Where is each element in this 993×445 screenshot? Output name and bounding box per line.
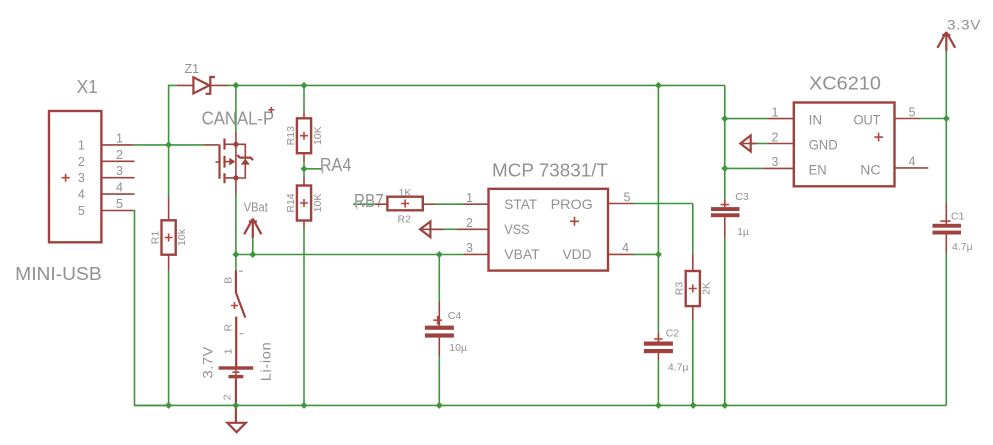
node ground rail at battery <box>232 402 239 409</box>
svg-text:NC: NC <box>860 161 880 177</box>
svg-text:VBAT: VBAT <box>504 246 540 262</box>
svg-text:R: R <box>222 323 234 331</box>
wire 3.3V column <box>945 51 947 119</box>
resistor R13 <box>297 111 311 162</box>
node EN junction <box>721 165 728 172</box>
capacitor C1 <box>933 203 962 253</box>
node ground rail at C4 <box>436 402 443 409</box>
svg-text:2: 2 <box>772 130 779 144</box>
svg-text:4: 4 <box>116 181 123 195</box>
wire C2 to ground rail <box>657 360 659 405</box>
svg-text:4.7µ: 4.7µ <box>952 241 973 253</box>
wire R13 top <box>303 85 305 111</box>
node ground rail at R14 <box>301 402 308 409</box>
capacitor C4 <box>425 302 454 356</box>
svg-text:XC6210: XC6210 <box>809 74 881 94</box>
svg-text:2: 2 <box>466 216 473 230</box>
ground symbol <box>227 405 245 432</box>
wire bottom ground rail <box>135 404 947 406</box>
wire R2 to MCP pin1 <box>436 203 464 205</box>
wire VDD column <box>657 85 659 333</box>
svg-text:1K: 1K <box>399 187 412 199</box>
svg-text:C2: C2 <box>666 328 680 340</box>
svg-text:4: 4 <box>909 155 916 169</box>
wire OUT net <box>920 118 946 120</box>
svg-text:2K: 2K <box>701 282 713 295</box>
svg-text:OUT: OUT <box>854 111 881 127</box>
svg-text:B: B <box>222 277 234 284</box>
node OUT junction <box>943 115 950 122</box>
RA4 origin tick <box>322 165 324 174</box>
svg-text:2: 2 <box>221 394 233 400</box>
svg-text:2: 2 <box>116 148 123 162</box>
wire X1 pin1 to node <box>133 144 204 146</box>
svg-text:1µ: 1µ <box>737 226 749 238</box>
svg-text:4.7µ: 4.7µ <box>668 362 689 374</box>
node ground rail at R1 <box>165 402 172 409</box>
wire FET drain to top rail <box>235 85 237 132</box>
svg-text:VDD: VDD <box>563 246 592 262</box>
svg-text:2: 2 <box>78 155 85 169</box>
svg-text:10K: 10K <box>312 194 324 213</box>
svg-text:PROG: PROG <box>551 196 593 212</box>
svg-text:1: 1 <box>116 131 123 145</box>
resistor R3 <box>686 254 700 320</box>
zener diode Z1 <box>177 77 228 94</box>
svg-text:R1: R1 <box>149 231 161 245</box>
svg-text:10K: 10K <box>312 126 324 145</box>
capacitor C2 <box>644 333 673 360</box>
svg-text:1: 1 <box>772 105 779 119</box>
ground arrow MCP VSS <box>420 222 444 238</box>
svg-text:1: 1 <box>466 191 473 205</box>
node VBUS junction <box>165 141 172 148</box>
IC U1 MCP 73831/T <box>456 189 633 271</box>
svg-text:STAT: STAT <box>504 196 537 212</box>
switch S1 <box>231 255 245 367</box>
svg-text:C3: C3 <box>735 191 749 203</box>
svg-text:MCP 73831/T: MCP 73831/T <box>492 161 608 181</box>
wire VBUS up to top rail <box>169 85 177 144</box>
svg-text:R14: R14 <box>285 193 297 212</box>
svg-text:5: 5 <box>624 190 631 204</box>
node top rail at VDD column <box>655 82 662 89</box>
node ground rail at C3 <box>721 402 728 409</box>
wire FET source down to mid rail <box>235 194 237 255</box>
wire GND pin <box>756 143 766 145</box>
node mid rail at C4 <box>436 251 443 258</box>
svg-text:GND: GND <box>809 137 838 153</box>
wire OUT down to C1 <box>945 119 947 204</box>
wire R3 to ground rail <box>692 320 694 405</box>
wire C4 to ground rail <box>438 356 440 405</box>
wire VDD pin4 <box>634 253 659 255</box>
wire RA4 stub <box>304 168 323 170</box>
transistor Q1 CANAL-P <box>204 132 253 194</box>
wire RA4 node <box>303 162 305 177</box>
svg-text:1: 1 <box>223 348 235 354</box>
wire mid rail VBat <box>236 254 464 256</box>
svg-text:3.7V: 3.7V <box>199 346 215 379</box>
svg-text:1: 1 <box>78 138 85 152</box>
svg-text:3: 3 <box>772 155 779 169</box>
svg-text:VSS: VSS <box>504 221 529 237</box>
svg-text:X1: X1 <box>77 77 98 97</box>
wire C3 to ground rail <box>724 237 726 405</box>
svg-text:VBat: VBat <box>244 201 268 215</box>
node top rail at R13 <box>301 82 308 89</box>
wire top rail <box>228 84 725 86</box>
battery G1 <box>219 366 254 405</box>
svg-text:RA4: RA4 <box>320 155 351 175</box>
svg-text:5: 5 <box>909 105 916 119</box>
svg-text:MINI-USB: MINI-USB <box>15 264 102 284</box>
node ground rail at C2 <box>655 402 662 409</box>
RB7 origin tick <box>356 201 358 209</box>
node IN junction <box>721 115 728 122</box>
connector X1 <box>49 111 135 242</box>
svg-text:EN: EN <box>809 161 827 177</box>
capacitor C3 <box>711 200 740 237</box>
svg-text:R13: R13 <box>285 126 297 145</box>
wire VSS <box>444 228 457 230</box>
node mid rail at VBat arrow <box>249 251 256 258</box>
wire PROG net <box>634 204 693 254</box>
svg-text:C4: C4 <box>448 310 462 322</box>
svg-text:3: 3 <box>466 241 473 255</box>
resistor R1 <box>162 197 176 271</box>
resistor R14 <box>297 177 311 229</box>
switch origin ticks <box>239 271 244 333</box>
svg-text:RB7: RB7 <box>354 191 384 211</box>
svg-text:R3: R3 <box>674 282 686 296</box>
wire IN pin <box>725 118 769 120</box>
svg-text:3: 3 <box>78 171 85 185</box>
ground arrow XC GND <box>740 136 756 152</box>
node RA4 junction <box>301 165 308 172</box>
wire C1 to ground rail <box>945 253 947 405</box>
wire R1 bottom <box>168 271 170 406</box>
svg-text:5: 5 <box>78 204 85 218</box>
resistor R2 <box>375 197 436 211</box>
svg-text:5: 5 <box>116 197 123 211</box>
svg-text:4: 4 <box>78 188 85 202</box>
IC U2 XC6210 <box>763 103 928 187</box>
svg-text:4: 4 <box>622 241 629 255</box>
wire C4 column <box>438 255 440 303</box>
wire RB7 stub <box>353 203 375 205</box>
svg-text:10k: 10k <box>176 228 188 246</box>
wire R1 top <box>168 145 170 197</box>
supply arrow 3.3V <box>937 32 955 51</box>
svg-text:CANAL-P: CANAL-P <box>202 108 275 128</box>
wire R14 bottom to ground rail <box>303 229 305 406</box>
Q1 origin cross <box>268 107 274 113</box>
svg-text:IN: IN <box>809 111 823 127</box>
svg-text:Z1: Z1 <box>185 62 200 76</box>
wire X1 pin5 down to ground rail <box>133 211 168 406</box>
svg-text:Li-ion: Li-ion <box>258 342 274 382</box>
svg-text:3.3V: 3.3V <box>947 17 981 33</box>
node ground rail at R3 <box>690 402 697 409</box>
node mid rail at battery <box>232 251 239 258</box>
svg-text:C1: C1 <box>951 211 965 223</box>
svg-text:3: 3 <box>116 164 123 178</box>
svg-text:R2: R2 <box>398 214 412 226</box>
node top rail at FET <box>232 82 239 89</box>
wire top rail corner down to XC <box>724 85 726 201</box>
node VDD junction <box>655 251 662 258</box>
supply arrow VBat <box>244 219 261 255</box>
wire EN pin <box>725 167 763 169</box>
svg-text:10µ: 10µ <box>449 342 467 354</box>
